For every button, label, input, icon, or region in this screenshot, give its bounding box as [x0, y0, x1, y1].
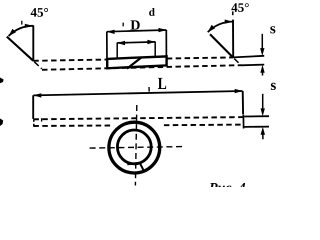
- dimension D arrow right: [147, 40, 155, 44]
- scan mark left edge upper: [0, 78, 4, 84]
- label L: [158, 78, 166, 89]
- right chamfer dashed corner continuation: [234, 59, 241, 65]
- pin bottom edge dashed (upper view): [42, 65, 241, 70]
- right chamfer vertical extension line: [232, 20, 234, 58]
- dimension s (lower) upper arrowhead: [261, 108, 265, 116]
- label 45 deg left: [31, 8, 48, 17]
- dimension d corner right: [165, 30, 167, 57]
- pin bottom edge dashed left segment (lower view): [33, 125, 112, 128]
- dimension s (lower) lower arrowhead: [261, 127, 265, 135]
- inner circle of cross-section: [117, 130, 151, 164]
- dimension L left extension leg: [32, 95, 34, 119]
- dimension d line: [107, 30, 167, 32]
- left chamfer dashed corner continuation: [34, 62, 42, 69]
- dimension D extension line left: [116, 43, 118, 59]
- tick left of label D: [122, 23, 124, 27]
- dimension s (lower) lower arrow line: [262, 132, 264, 140]
- dimension L line: [33, 91, 242, 95]
- dimension L right extension leg: [242, 91, 244, 115]
- dimension s (upper) top extension line: [233, 56, 264, 58]
- dimension d arrow right: [159, 28, 167, 32]
- label 45 deg right: [231, 3, 248, 12]
- section rectangle: [107, 56, 166, 68]
- dimension L arrow right: [235, 89, 243, 93]
- label s lower: [271, 83, 276, 90]
- slit chord line: [127, 163, 140, 164]
- pin bottom edge dashed right segment (lower view): [164, 124, 243, 127]
- dimension s (upper) lower arrowhead: [260, 65, 264, 73]
- left arc tick: [21, 21, 23, 25]
- outer circle of cross-section: [109, 122, 160, 173]
- right arc arrowhead lower-left: [208, 25, 216, 33]
- vertical centerline of section circle: [135, 105, 136, 186]
- right chamfer tick above: [232, 11, 234, 15]
- dimension s (upper) upper arrow line: [261, 34, 263, 52]
- dimension s (upper) upper arrowhead: [260, 48, 264, 56]
- section slash: [127, 57, 142, 68]
- horizontal centerline of section circle: [90, 147, 183, 149]
- dimension d corner left: [106, 32, 108, 59]
- dimension s (upper) bottom extension line: [241, 64, 264, 67]
- scan mark left edge lower: [0, 119, 3, 127]
- label D: [131, 20, 140, 29]
- right arc arrowhead right: [225, 20, 233, 24]
- left arc arrowhead lower-left: [8, 29, 16, 37]
- left 45-degree dimension arc: [9, 26, 34, 36]
- caption (clipped at bottom edge): [209, 183, 245, 192]
- pin top edge dashed (upper view): [33, 57, 233, 60]
- tick left of label L: [148, 87, 150, 92]
- label s upper: [270, 26, 275, 33]
- dimension s (lower) top extension line: [244, 115, 269, 117]
- tick on pin top edge left (lower view): [41, 118, 43, 121]
- dimension L arrow left: [33, 93, 41, 97]
- right chamfer 45-degree line: [210, 34, 233, 57]
- label d: [149, 8, 155, 16]
- pin top edge dashed (lower view): [33, 117, 243, 119]
- dimension D arrow left: [117, 41, 125, 45]
- dimension s (lower) bottom extension line: [244, 126, 269, 128]
- dimension d arrow left: [107, 30, 115, 34]
- pin right end edge (lower view): [242, 115, 244, 129]
- pin left end dashed edge (lower view): [33, 119, 35, 126]
- left chamfer 45-degree line: [7, 37, 34, 61]
- slit radial line: [140, 163, 145, 172]
- dimension s (lower) upper arrow line: [262, 94, 264, 112]
- right 45-degree dimension arc: [208, 22, 233, 33]
- dimension D extension line right: [154, 42, 156, 57]
- dimension s (upper) lower arrow line: [262, 70, 264, 76]
- left chamfer vertical extension line: [32, 25, 34, 60]
- left arc arrowhead right: [25, 24, 33, 28]
- dimension D line: [117, 42, 155, 43]
